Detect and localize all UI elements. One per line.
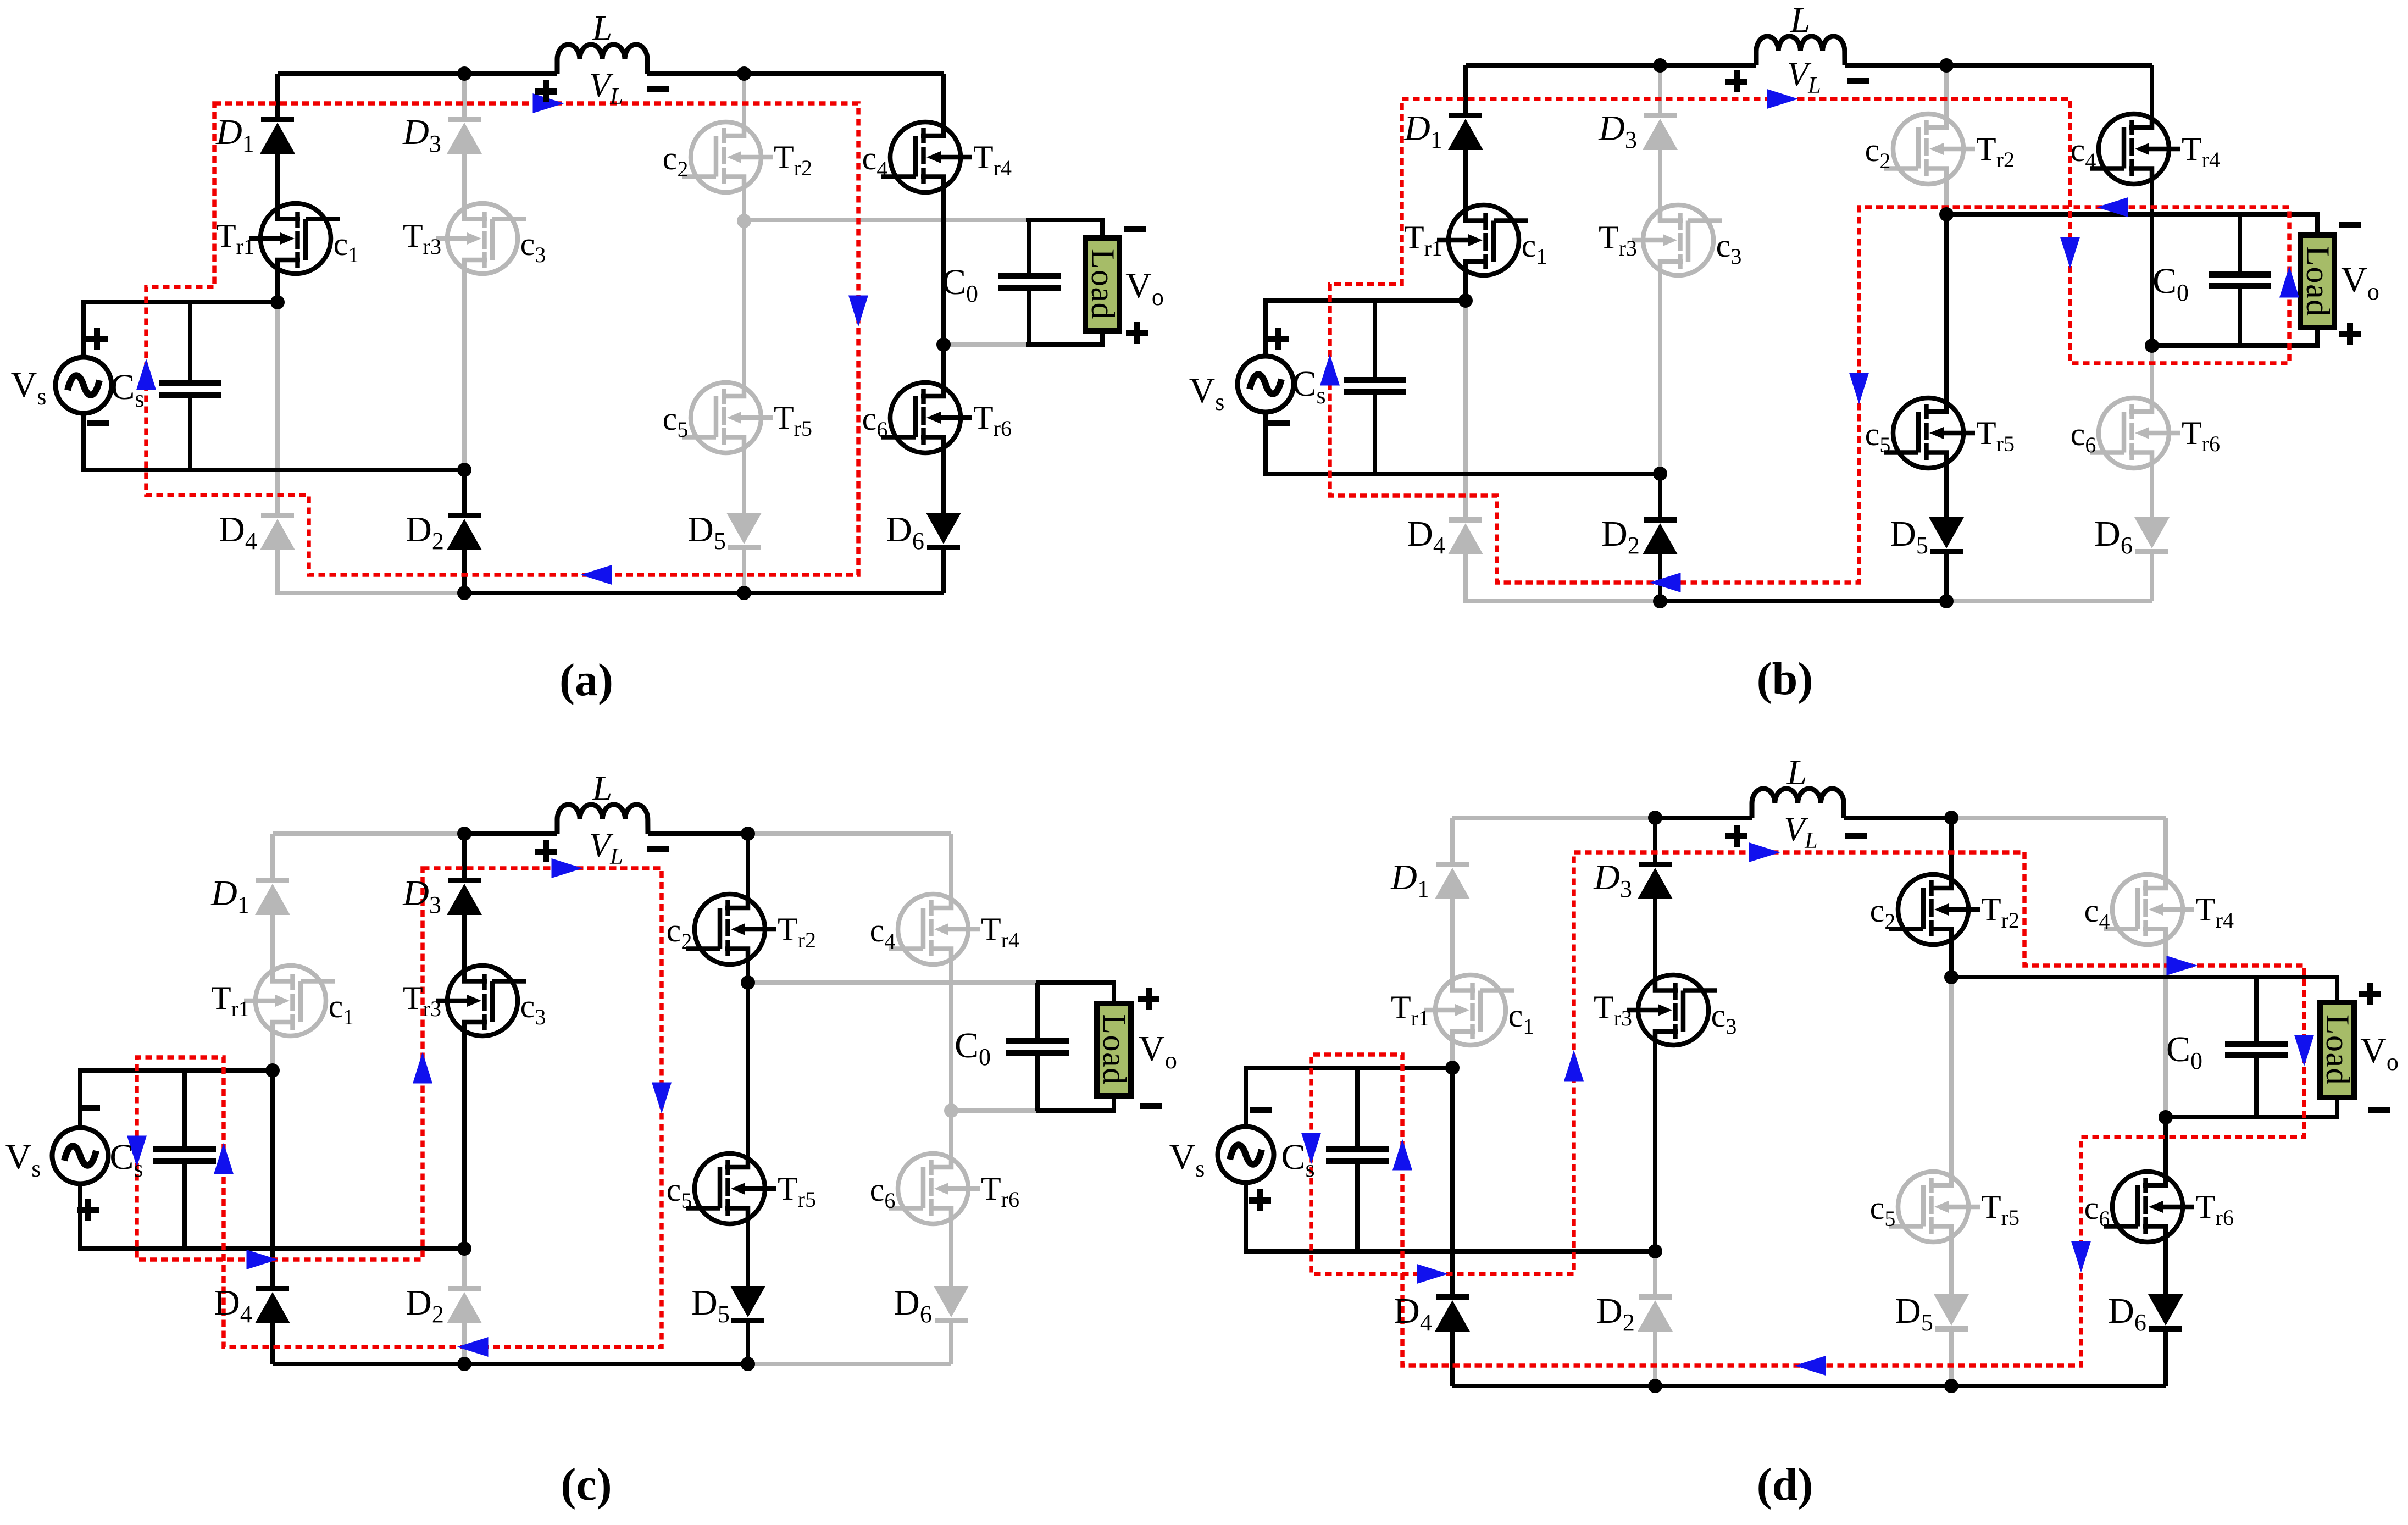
wire (c) Tr2 to output node <box>746 957 750 983</box>
wire (d) Tr6 to D6 <box>2163 1234 2168 1294</box>
wire (b) top rail to Tr4 <box>2150 65 2154 121</box>
node (b) bottom rail / D5 <box>1939 594 1954 608</box>
node (d) Tr2/Tr5 midpoint <box>1944 970 1958 984</box>
current direction arrow (c) <box>214 1143 234 1174</box>
current direction arrow (d) <box>1564 1050 1584 1082</box>
current direction arrow (c) <box>457 1337 489 1357</box>
inductor L (c) <box>557 805 648 834</box>
svg-text:(a): (a) <box>559 655 613 706</box>
plus sign VL (d) <box>1725 825 1747 847</box>
current direction arrow (b) <box>1650 573 1681 592</box>
current direction arrow (c) <box>413 1052 432 1084</box>
wire (a) bottom rail <box>464 591 944 595</box>
wire (a) D5 to bottom rail <box>742 550 746 593</box>
node (d) output bottom / Tr4-Tr6 <box>2159 1110 2173 1124</box>
plus sign source (b) <box>1267 328 1289 350</box>
wire (b) Cs top stub <box>1373 301 1377 377</box>
wire (d) mid node to Tr5 <box>1949 977 1954 1179</box>
node A (c) Tr1 source / Cs <box>265 1063 280 1078</box>
wire (a) top rail down to D1 <box>275 74 280 117</box>
wire (a) load bottom to output bottom rail <box>1026 331 1102 345</box>
inductor L (b) <box>1756 36 1845 65</box>
diode D4 (a) inactive <box>260 513 295 550</box>
node (a) output bottom / Tr4-Tr6 <box>936 337 951 352</box>
minus sign Vo (c) <box>1140 1103 1162 1109</box>
capacitor C0 (d) <box>2225 1041 2288 1058</box>
minus sign Vo (d) <box>2368 1107 2390 1113</box>
transistor Tr3 (a) inactive <box>436 203 526 274</box>
source Vs (a) <box>56 357 112 413</box>
wire (c) C0 bottom stub <box>1035 1056 1040 1111</box>
diode D1 (a) <box>260 117 295 154</box>
diode D3 (d) <box>1638 862 1673 899</box>
wire (b) node to D2 <box>1658 474 1662 517</box>
current direction arrow (c) <box>552 858 583 878</box>
wire (d) Cs bottom stub <box>1355 1164 1360 1251</box>
wire (d) output top rail to load <box>1951 977 2337 1002</box>
wire (b) node to Tr5 <box>1944 214 1949 406</box>
current direction arrow (a) <box>136 359 156 390</box>
wire (a) C0 top stub <box>1027 220 1031 273</box>
current path (c) red dashed loop <box>137 868 662 1347</box>
current direction arrow (b) <box>1849 373 1869 404</box>
wire (c) output top rail to load <box>1036 983 1114 1003</box>
node (a) source bottom / D2 <box>457 463 471 477</box>
wire (d) D3 to Tr3 <box>1653 899 1657 983</box>
svg-text:(d): (d) <box>1757 1459 1813 1510</box>
wire (c) D1 to Tr1 <box>270 915 275 973</box>
svg-text:(c): (c) <box>561 1459 612 1510</box>
wire (a) D1 to Tr1 <box>275 154 280 211</box>
wire (a) top rail to Tr2 <box>742 74 746 130</box>
current direction arrow (b) <box>2279 267 2299 298</box>
wire (c) output node to Tr6 <box>949 1111 953 1161</box>
node A (d) Tr1 source / Cs <box>1445 1061 1460 1075</box>
node (b) Tr2/Tr5 midpoint <box>1939 207 1954 221</box>
transistor Tr1 (d) inactive <box>1424 975 1514 1045</box>
wire (d) load bottom to output bottom rail <box>2166 1097 2337 1117</box>
current direction arrow (d) <box>1749 842 1780 862</box>
wire (c) node to Tr5 <box>746 983 750 1161</box>
wire (a) node-A down to D4 <box>275 302 280 513</box>
current direction arrow (c) <box>127 1136 147 1167</box>
wire (b) C0 top stub <box>2238 214 2242 271</box>
current path (b) red dashed loop <box>1330 99 2289 583</box>
wire (b) D6 to bottom rail <box>2150 554 2154 601</box>
node (c) output bottom / Tr4-Tr6 <box>944 1103 958 1118</box>
wire (b) node A to source Vs <box>1266 301 1466 356</box>
wire (d) node A to source Vs <box>1246 1068 1452 1127</box>
minus sign Vo (b) <box>2339 222 2361 228</box>
wire (a) top rail right <box>647 71 944 76</box>
wire (c) D5 to bottom rail <box>746 1323 750 1364</box>
wire (c) top rail to Tr2 <box>746 834 750 902</box>
node A (b) Tr1 source / Cs <box>1458 293 1473 308</box>
node (d) top rail / D3 branch <box>1648 811 1662 825</box>
current direction arrow (b) <box>1320 354 1340 386</box>
transistor Tr5 (d) inactive <box>1889 1172 1980 1242</box>
inductor L (a) <box>557 45 647 74</box>
load resistor (d) <box>2320 1002 2356 1097</box>
diode D1 (b) <box>1448 113 1483 150</box>
minus sign Vo (a) <box>1124 226 1146 232</box>
node (c) top rail / D3 branch <box>457 827 471 841</box>
current direction arrow (d) <box>1795 1356 1826 1376</box>
transistor Tr6 (c) inactive <box>889 1154 980 1224</box>
wire (c) bottom rail grey right <box>748 1362 951 1366</box>
wire (c) node A to source Vs <box>80 1071 273 1128</box>
current direction arrow (d) <box>1392 1139 1412 1171</box>
source Vs (c) <box>52 1128 108 1184</box>
svg-text:L: L <box>592 768 613 808</box>
wire (b) Tr5 to D5 <box>1944 461 1949 517</box>
current direction arrow (a) <box>533 93 564 113</box>
source Vs (b) <box>1238 356 1294 412</box>
wire (c) Tr1 to node A <box>270 1028 275 1071</box>
wire (d) Tr5 to D5 <box>1949 1234 1954 1294</box>
wire (d) Cs top stub <box>1355 1068 1360 1146</box>
source Vs (d) <box>1218 1127 1274 1183</box>
wire (b) top rail down to D1 <box>1463 65 1468 113</box>
plus sign Vo (b) <box>2339 323 2361 345</box>
plus sign VL (b) <box>1725 70 1747 92</box>
wire (c) top rail from D3 node <box>464 831 557 836</box>
wire (b) Cs bottom stub <box>1373 395 1377 474</box>
diode D5 (c) <box>730 1286 765 1323</box>
minus sign source (b) <box>1268 420 1290 426</box>
wire (a) output top rail grey <box>744 218 1026 222</box>
current path (d) red dashed loop <box>1311 852 2304 1366</box>
wire (c) D3 to Tr3 <box>462 915 467 973</box>
diode D3 (c) <box>447 878 482 915</box>
transistor Tr3 (d) <box>1627 975 1717 1045</box>
svg-text:L: L <box>592 8 613 48</box>
transistor Tr3 (c) <box>436 966 526 1036</box>
wire (b) load bottom to output bottom rail <box>2152 328 2317 346</box>
svg-text:Load: Load <box>1096 1014 1133 1085</box>
wire (b) bottom rail <box>1660 599 1946 603</box>
diode D5 (d) inactive <box>1934 1294 1969 1332</box>
load resistor (c) <box>1096 1003 1133 1096</box>
plus sign source (d) <box>1249 1189 1271 1211</box>
node (d) bottom rail / D2 <box>1648 1379 1662 1393</box>
transistor Tr6 (d) <box>2104 1172 2194 1242</box>
wire (b) D2 to bottom rail <box>1658 554 1662 601</box>
minus sign VL (a) <box>647 86 669 92</box>
wire (a) C0 bottom stub <box>1027 291 1031 345</box>
transistor Tr4 (c) inactive <box>889 894 980 964</box>
transistor Tr5 (b) <box>1884 398 1975 468</box>
current direction arrow (c) <box>247 1250 278 1269</box>
node (b) top rail / Tr2 branch <box>1939 58 1954 73</box>
plus sign VL (c) <box>535 840 557 862</box>
wire (b) D4 to bottom rail (grey) <box>1466 554 1660 601</box>
wire (b) C0 bottom stub <box>2238 289 2242 346</box>
wire (d) bottom rail <box>1452 1384 2166 1388</box>
wire (c) Tr5 to D5 <box>746 1216 750 1286</box>
wire (b) top rail to D3 <box>1658 65 1662 113</box>
node (b) output bottom / Tr4-Tr6 <box>2145 339 2159 353</box>
plus sign Vo (c) <box>1138 988 1159 1010</box>
wire (b) node-A down to D4 <box>1463 301 1468 517</box>
current direction arrow (d) <box>2071 1241 2091 1273</box>
wire (d) top rail left grey <box>1452 816 1655 820</box>
wire (d) D1 to Tr1 <box>1450 899 1455 983</box>
wire (b) top rail to Tr2 <box>1944 65 1949 121</box>
transistor Tr1 (b) <box>1437 205 1528 275</box>
wire (b) D5 to bottom rail <box>1944 554 1949 601</box>
transistor Tr2 (d) <box>1889 874 1980 945</box>
node (d) top rail / Tr2 branch <box>1944 811 1958 825</box>
wire (c) C0 top stub <box>1035 983 1040 1038</box>
current direction arrow (b) <box>1767 89 1799 109</box>
current direction arrow (d) <box>2167 956 2198 975</box>
diode D1 (d) inactive <box>1435 862 1470 899</box>
svg-text:L: L <box>1790 0 1811 40</box>
transistor Tr6 (a) <box>881 382 972 453</box>
minus sign source (c) <box>78 1105 100 1111</box>
wire (c) top rail down to D3 <box>462 834 467 878</box>
wire (d) node to D2 <box>1653 1251 1657 1294</box>
wire (b) Tr2 to mid node <box>1944 176 1949 214</box>
wire (b) Tr6 to D6 <box>2150 461 2154 517</box>
wire (c) output bottom rail grey <box>951 1108 1036 1113</box>
node (b) top rail / D3 branch <box>1653 58 1667 73</box>
plus sign source (a) <box>86 328 108 350</box>
node (a) Tr2/Tr5 midpoint <box>737 214 751 228</box>
wire (a) Tr1 source to node A <box>275 266 280 302</box>
wire (a) mid node to Tr5 <box>742 221 746 390</box>
wire (d) top rail right grey piece <box>1951 816 2166 820</box>
diode D6 (d) <box>2148 1294 2183 1332</box>
transistor Tr1 (c) inactive <box>244 966 335 1036</box>
wire (b) top rail left <box>1466 63 1756 68</box>
current direction arrow (a) <box>581 565 612 585</box>
wire (d) source bottom wire <box>1246 1183 1655 1251</box>
transistor Tr2 (b) inactive <box>1884 114 1975 184</box>
wire (a) node to D2 <box>462 470 467 513</box>
wire (d) node A down to D4 <box>1450 1068 1455 1294</box>
wire (a) Tr3 down to source-bottom node <box>462 266 467 470</box>
capacitor C0 (b) <box>2209 271 2271 289</box>
transistor Tr3 (b) inactive <box>1632 205 1722 275</box>
wire (b) output top rail to load <box>1946 214 2317 235</box>
wire (c) source bottom wire <box>80 1184 464 1249</box>
wire (a) D2 to bottom rail <box>462 550 467 593</box>
wire (d) C0 bottom stub <box>2254 1058 2259 1117</box>
minus sign source (a) <box>87 420 109 426</box>
transistor Tr5 (a) inactive <box>682 382 773 453</box>
wire (b) D3 to Tr3 <box>1658 150 1662 213</box>
current direction arrow (b) <box>2060 237 2080 269</box>
load resistor (b) <box>2300 235 2336 328</box>
transistor Tr2 (a) inactive <box>682 122 773 192</box>
diode D4 (b) inactive <box>1448 517 1483 554</box>
wire (d) top rail to Tr2 node <box>1844 816 1951 820</box>
node (b) bottom rail / D2 <box>1653 594 1667 608</box>
minus sign VL (c) <box>647 846 669 852</box>
wire (c) node A down to D4 <box>270 1071 275 1286</box>
svg-text:L: L <box>1786 752 1807 792</box>
wire (c) top rail to Tr2 node <box>648 831 748 836</box>
wire (a) Tr2 to mid node <box>742 185 746 221</box>
wire (b) D1 to Tr1 <box>1463 150 1468 213</box>
wire (d) Tr4 down to output node <box>2163 937 2168 1117</box>
diode D6 (a) <box>926 513 961 550</box>
diode D5 (b) <box>1929 517 1964 554</box>
wire (b) bottom rail grey right <box>1946 599 2152 603</box>
current direction arrow (d) <box>1301 1133 1321 1164</box>
wire (a) Tr6 to D6 <box>941 445 946 513</box>
wire (c) output top rail grey <box>748 980 1036 985</box>
wire (c) Tr3 source to node <box>462 1028 467 1249</box>
wire (d) C0 top stub <box>2254 977 2259 1041</box>
plus sign Vo (a) <box>1126 322 1148 344</box>
minus sign VL (b) <box>1847 78 1869 84</box>
wire (d) output node to Tr6 <box>2163 1117 2168 1179</box>
wire (d) top rail down to D3 <box>1653 818 1657 862</box>
svg-text:Load: Load <box>1085 249 1121 320</box>
wire (d) top rail to D1 <box>1450 818 1455 862</box>
diode D4 (c) <box>255 1286 290 1323</box>
wire (a) source bottom wire <box>84 413 464 470</box>
wire (a) top rail left <box>278 71 557 76</box>
wire (c) node to D2 <box>462 1249 467 1286</box>
plus sign source (c) <box>77 1199 99 1221</box>
transistor Tr4 (d) inactive <box>2104 874 2194 945</box>
node (a) bottom rail / D5 <box>737 586 751 600</box>
svg-text:Load: Load <box>2300 246 2336 317</box>
current direction arrow (c) <box>652 1083 672 1114</box>
wire (a) D6 to bottom rail corner <box>941 550 946 593</box>
diode D6 (b) inactive <box>2134 517 2170 554</box>
node (c) bottom rail / D2 <box>457 1357 471 1371</box>
wire (c) bottom rail <box>273 1362 748 1366</box>
transistor Tr4 (b) <box>2090 114 2180 184</box>
wire (b) output node to Tr6 <box>2150 346 2154 406</box>
wire (c) top rail to D1 <box>270 834 275 878</box>
capacitor C0 (a) <box>998 273 1061 291</box>
node (b) source bottom / D2 <box>1653 467 1667 481</box>
capacitor Cs (d) <box>1326 1146 1389 1164</box>
wire (a) top rail to Tr4 <box>941 74 946 130</box>
wire (d) top rail to Tr4 <box>2163 818 2168 882</box>
wire (c) top rail to Tr4 <box>949 834 953 902</box>
diode D2 (d) inactive <box>1638 1294 1673 1332</box>
wire (b) Tr3 down to source-bottom node <box>1658 268 1662 474</box>
load resistor (a) <box>1085 238 1121 331</box>
plus sign Vo (d) <box>2359 983 2381 1005</box>
wire (d) D2 to bottom rail <box>1653 1332 1657 1386</box>
node (c) Tr2/Tr5 midpoint <box>741 975 755 990</box>
wire (d) D6 to bottom rail corner <box>2163 1332 2168 1386</box>
current path (a) red dashed loop <box>146 103 858 575</box>
wire (a) top rail to D3 <box>462 74 467 117</box>
transistor Tr4 (a) <box>881 122 972 192</box>
wire (d) Tr3 source to node <box>1653 1038 1657 1251</box>
wire (c) Cs bottom stub <box>182 1164 187 1249</box>
wire (d) D5 to bottom rail <box>1949 1332 1954 1386</box>
minus sign source (d) <box>1250 1107 1272 1113</box>
diode D4 (d) <box>1435 1294 1470 1332</box>
diode D2 (a) <box>447 513 482 550</box>
node (a) bottom rail / D2 <box>457 586 471 600</box>
wire (a) Tr4 to output node <box>941 185 946 345</box>
wire (a) Cs bottom stub <box>188 398 192 470</box>
transistor Tr1 (a) <box>249 203 340 274</box>
diode D1 (c) inactive <box>255 878 290 915</box>
wire (a) output bottom rail grey <box>944 342 1026 347</box>
wire (a) Tr5 to D5 <box>742 445 746 513</box>
diode D2 (c) inactive <box>447 1286 482 1323</box>
node (c) bottom rail / D5 <box>741 1357 755 1371</box>
wire (c) D6 to bottom rail <box>949 1323 953 1364</box>
wire (a) D4 to bottom rail (grey) <box>278 550 464 593</box>
wire (b) source bottom wire <box>1266 412 1660 474</box>
wire (d) Tr2 to output node <box>1949 937 1954 977</box>
transistor Tr6 (b) inactive <box>2090 398 2180 468</box>
capacitor C0 (c) <box>1006 1038 1069 1056</box>
wire (b) top rail right <box>1845 63 2152 68</box>
node (d) source bottom / D2 <box>1648 1244 1662 1258</box>
wire (c) load bottom to output bottom rail <box>1036 1096 1114 1111</box>
svg-text:(b): (b) <box>1757 653 1813 705</box>
wire (a) node A to source Vs <box>84 302 278 357</box>
current direction arrow (d) <box>2294 1035 2314 1067</box>
wire (c) Tr6 to D6 <box>949 1216 953 1286</box>
wire (a) Cs top stub <box>188 302 192 380</box>
current direction arrow (d) <box>1417 1264 1449 1284</box>
current direction arrow (b) <box>2097 197 2128 217</box>
inductor L (d) <box>1752 789 1844 818</box>
capacitor Cs (c) <box>153 1146 216 1164</box>
capacitor Cs (a) <box>159 380 221 398</box>
wire (a) output node to Tr6 <box>941 345 946 390</box>
node (c) top rail / Tr2 branch <box>741 827 755 841</box>
wire (d) Tr1 to node A <box>1450 1038 1455 1068</box>
plus sign VL (a) <box>535 80 557 102</box>
wire (c) top rail right grey piece <box>748 831 951 836</box>
wire (d) D4 to bottom rail <box>1450 1332 1455 1386</box>
node (c) source bottom / D2 <box>457 1241 471 1256</box>
diode D6 (c) inactive <box>934 1286 969 1323</box>
wire (a) output top rail to load <box>1026 220 1102 238</box>
node A (a) Tr1 source / Cs <box>270 295 285 309</box>
diode D3 (b) inactive <box>1643 113 1678 150</box>
capacitor Cs (b) <box>1344 377 1406 395</box>
diode D2 (b) <box>1643 517 1678 554</box>
node (d) bottom rail / D5 <box>1944 1379 1958 1393</box>
wire (a) D3 to Tr3 <box>462 154 467 211</box>
transistor Tr2 (c) <box>686 894 776 964</box>
diode D5 (a) inactive <box>726 513 762 550</box>
current direction arrow (a) <box>848 296 868 327</box>
node (a) top rail / D3 branch <box>457 66 471 81</box>
svg-text:Load: Load <box>2320 1014 2356 1085</box>
wire (d) top rail from D3 node <box>1655 816 1752 820</box>
wire (c) top rail left grey <box>273 831 464 836</box>
wire (c) D4 to bottom rail <box>270 1323 275 1364</box>
minus sign VL (d) <box>1845 833 1867 839</box>
wire (b) Tr4 to output node <box>2150 176 2154 346</box>
node (a) top rail / Tr2 branch <box>737 66 751 81</box>
wire (d) top rail to Tr2 <box>1949 818 1954 882</box>
wire (c) Tr4 down to output node <box>949 957 953 1111</box>
wire (b) Tr1 source to node A <box>1463 268 1468 301</box>
wire (c) Cs top stub <box>182 1071 187 1146</box>
transistor Tr5 (c) <box>686 1154 776 1224</box>
diode D3 (a) inactive <box>447 117 482 154</box>
